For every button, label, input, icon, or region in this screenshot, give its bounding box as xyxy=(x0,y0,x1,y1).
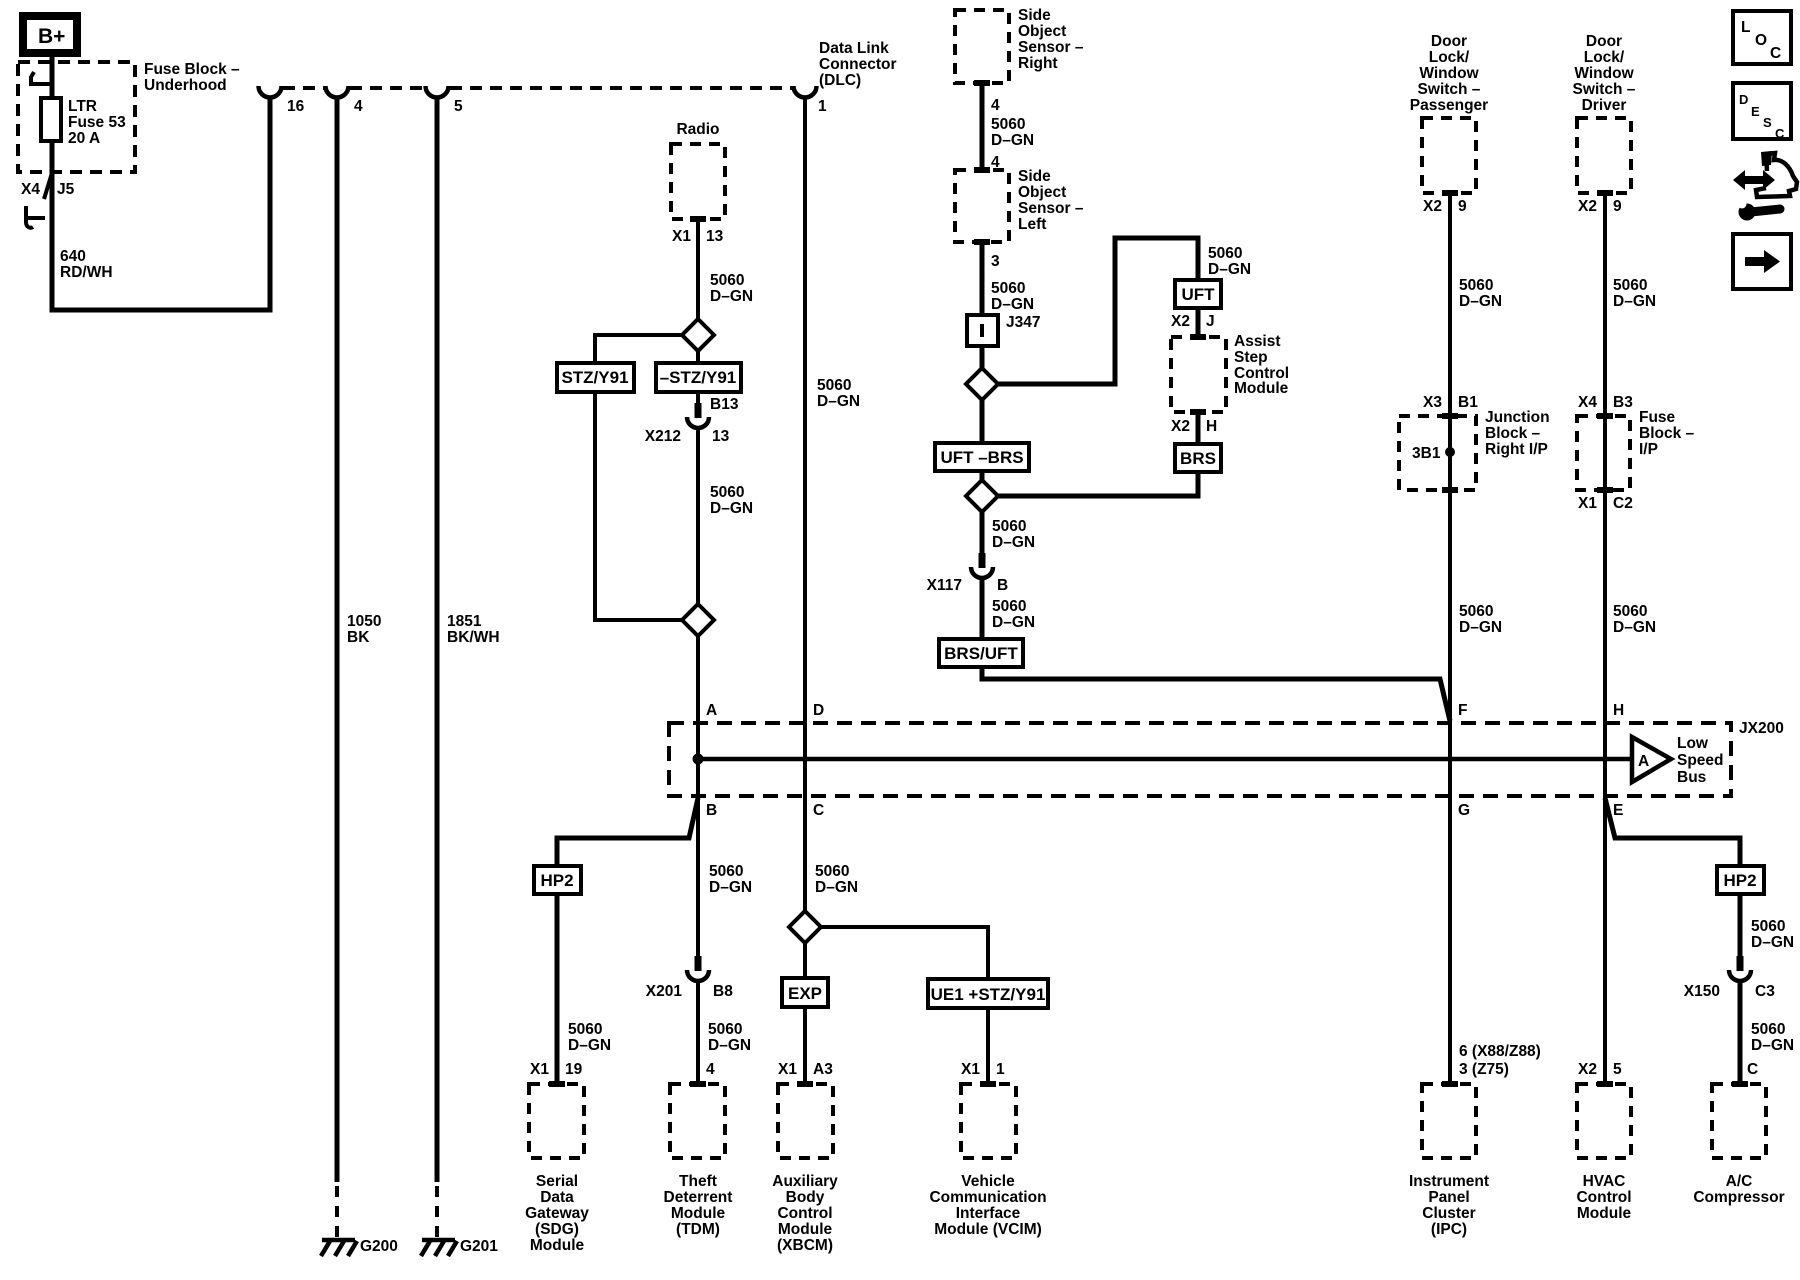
svg-text:Lock/: Lock/ xyxy=(1429,49,1470,66)
svg-text:Module: Module xyxy=(1577,1205,1632,1222)
svg-text:A: A xyxy=(706,702,717,719)
svg-text:Connector: Connector xyxy=(819,56,897,73)
svg-text:B+: B+ xyxy=(38,25,65,48)
svg-text:Panel: Panel xyxy=(1428,1189,1469,1206)
svg-text:D–GN: D–GN xyxy=(1459,619,1502,636)
svg-text:D–GN: D–GN xyxy=(991,132,1034,149)
svg-text:Auxiliary: Auxiliary xyxy=(772,1173,838,1190)
svg-text:Vehicle: Vehicle xyxy=(961,1173,1015,1190)
svg-text:Cluster: Cluster xyxy=(1422,1205,1475,1222)
svg-text:5060: 5060 xyxy=(815,863,849,880)
svg-text:X2: X2 xyxy=(1578,1061,1597,1078)
svg-text:D–GN: D–GN xyxy=(1613,293,1656,310)
svg-text:UFT –BRS: UFT –BRS xyxy=(940,448,1023,467)
svg-text:C: C xyxy=(1775,126,1785,141)
svg-text:Lock/: Lock/ xyxy=(1584,49,1625,66)
svg-text:5060: 5060 xyxy=(991,280,1025,297)
svg-text:640: 640 xyxy=(60,248,86,265)
svg-text:C2: C2 xyxy=(1613,495,1633,512)
svg-text:Object: Object xyxy=(1018,23,1066,40)
svg-text:D–GN: D–GN xyxy=(710,288,753,305)
svg-text:BK/WH: BK/WH xyxy=(447,629,500,646)
svg-text:Instrument: Instrument xyxy=(1409,1173,1489,1190)
svg-text:J5: J5 xyxy=(57,181,75,198)
svg-text:F: F xyxy=(1458,702,1467,719)
svg-text:D–GN: D–GN xyxy=(708,1037,751,1054)
svg-text:9: 9 xyxy=(1613,198,1622,215)
svg-text:B8: B8 xyxy=(713,983,733,1000)
svg-text:Door: Door xyxy=(1586,33,1622,50)
svg-text:Right: Right xyxy=(1018,55,1058,72)
svg-text:(XBCM): (XBCM) xyxy=(777,1237,833,1254)
svg-text:Door: Door xyxy=(1431,33,1467,50)
svg-text:C3: C3 xyxy=(1755,983,1775,1000)
svg-text:C: C xyxy=(813,802,824,819)
svg-text:Left: Left xyxy=(1018,216,1046,233)
svg-text:Fuse Block –: Fuse Block – xyxy=(144,61,240,78)
svg-text:4: 4 xyxy=(354,98,363,115)
svg-text:UFT: UFT xyxy=(1181,285,1215,304)
svg-text:X1: X1 xyxy=(1578,495,1597,512)
svg-text:Object: Object xyxy=(1018,184,1066,201)
svg-text:5060: 5060 xyxy=(1751,1021,1785,1038)
svg-text:Control: Control xyxy=(777,1205,832,1222)
svg-text:4: 4 xyxy=(706,1061,715,1078)
svg-text:D–GN: D–GN xyxy=(710,500,753,517)
svg-text:19: 19 xyxy=(565,1061,583,1078)
svg-text:13: 13 xyxy=(712,428,730,445)
svg-text:20 A: 20 A xyxy=(68,130,100,147)
svg-text:Step: Step xyxy=(1234,349,1268,366)
svg-text:5060: 5060 xyxy=(1459,277,1493,294)
svg-text:–STZ/Y91: –STZ/Y91 xyxy=(660,368,737,387)
svg-text:D–GN: D–GN xyxy=(1459,293,1502,310)
svg-text:BRS/UFT: BRS/UFT xyxy=(944,644,1018,663)
svg-text:5: 5 xyxy=(1613,1061,1622,1078)
svg-text:Deterrent: Deterrent xyxy=(664,1189,733,1206)
svg-text:Data Link: Data Link xyxy=(819,40,889,57)
svg-text:Communication: Communication xyxy=(929,1189,1046,1206)
svg-text:Right I/P: Right I/P xyxy=(1485,441,1548,458)
svg-text:Compressor: Compressor xyxy=(1693,1189,1784,1206)
svg-text:EXP: EXP xyxy=(788,984,822,1003)
svg-text:Low: Low xyxy=(1677,735,1709,752)
svg-text:B1: B1 xyxy=(1458,394,1478,411)
svg-text:5060: 5060 xyxy=(992,598,1026,615)
svg-text:D–GN: D–GN xyxy=(1208,261,1251,278)
svg-text:Sensor –: Sensor – xyxy=(1018,39,1084,56)
svg-text:X1: X1 xyxy=(778,1061,797,1078)
svg-text:1: 1 xyxy=(996,1061,1005,1078)
svg-text:X212: X212 xyxy=(645,428,681,445)
svg-text:Theft: Theft xyxy=(679,1173,717,1190)
svg-text:B: B xyxy=(706,802,717,819)
svg-text:Fuse 53: Fuse 53 xyxy=(68,114,126,131)
svg-text:5060: 5060 xyxy=(1613,603,1647,620)
svg-text:S: S xyxy=(1763,115,1772,130)
svg-text:4: 4 xyxy=(991,97,1000,114)
svg-text:C: C xyxy=(1747,1061,1758,1078)
svg-text:D–GN: D–GN xyxy=(991,296,1034,313)
svg-text:O: O xyxy=(1755,32,1767,49)
svg-text:X1: X1 xyxy=(530,1061,549,1078)
svg-text:Interface: Interface xyxy=(956,1205,1021,1222)
svg-text:LTR: LTR xyxy=(68,98,97,115)
svg-text:D–GN: D–GN xyxy=(1751,934,1794,951)
svg-text:X1: X1 xyxy=(961,1061,980,1078)
svg-text:B3: B3 xyxy=(1613,394,1633,411)
svg-text:5060: 5060 xyxy=(1208,245,1242,262)
svg-text:5060: 5060 xyxy=(1459,603,1493,620)
svg-text:X2: X2 xyxy=(1423,198,1442,215)
svg-text:Side: Side xyxy=(1018,168,1051,185)
svg-text:L: L xyxy=(1741,19,1750,36)
svg-text:J: J xyxy=(1206,313,1215,330)
svg-text:X2: X2 xyxy=(1171,313,1190,330)
svg-text:Block –: Block – xyxy=(1485,425,1541,442)
svg-text:D–GN: D–GN xyxy=(1751,1037,1794,1054)
svg-text:HP2: HP2 xyxy=(540,871,573,890)
svg-text:Speed: Speed xyxy=(1677,752,1724,769)
svg-text:3 (Z75): 3 (Z75) xyxy=(1459,1061,1509,1078)
svg-text:Window: Window xyxy=(1419,65,1479,82)
svg-text:9: 9 xyxy=(1458,198,1467,215)
svg-text:Fuse: Fuse xyxy=(1639,409,1676,426)
svg-text:D: D xyxy=(1739,92,1748,107)
svg-text:5060: 5060 xyxy=(817,377,851,394)
svg-text:1851: 1851 xyxy=(447,613,482,630)
svg-text:Serial: Serial xyxy=(536,1173,578,1190)
svg-text:B: B xyxy=(997,577,1008,594)
svg-text:5060: 5060 xyxy=(1751,918,1785,935)
svg-text:Data: Data xyxy=(540,1189,574,1206)
svg-text:13: 13 xyxy=(706,228,724,245)
svg-text:D–GN: D–GN xyxy=(817,393,860,410)
svg-text:BRS: BRS xyxy=(1180,449,1216,468)
svg-text:H: H xyxy=(1613,702,1624,719)
svg-text:3: 3 xyxy=(991,253,1000,270)
svg-text:HVAC: HVAC xyxy=(1583,1173,1626,1190)
svg-text:BK: BK xyxy=(347,629,370,646)
svg-text:Block –: Block – xyxy=(1639,425,1695,442)
svg-text:5060: 5060 xyxy=(991,116,1025,133)
svg-text:Passenger: Passenger xyxy=(1410,97,1488,114)
svg-text:X117: X117 xyxy=(927,577,962,594)
svg-text:D–GN: D–GN xyxy=(709,879,752,896)
svg-text:J347: J347 xyxy=(1006,314,1040,331)
svg-text:Gateway: Gateway xyxy=(525,1205,589,1222)
svg-text:X4: X4 xyxy=(21,181,40,198)
svg-text:16: 16 xyxy=(287,98,305,115)
svg-text:HP2: HP2 xyxy=(1723,871,1756,890)
svg-text:5060: 5060 xyxy=(1613,277,1647,294)
svg-text:5: 5 xyxy=(454,98,463,115)
svg-text:5060: 5060 xyxy=(568,1021,602,1038)
svg-text:UE1 +STZ/Y91: UE1 +STZ/Y91 xyxy=(931,985,1046,1004)
svg-text:Bus: Bus xyxy=(1677,769,1706,786)
svg-text:Body: Body xyxy=(786,1189,825,1206)
svg-text:(SDG): (SDG) xyxy=(535,1221,579,1238)
svg-text:G201: G201 xyxy=(460,1238,498,1255)
svg-text:5060: 5060 xyxy=(710,272,744,289)
svg-text:1: 1 xyxy=(818,98,827,115)
svg-text:C: C xyxy=(1770,45,1781,62)
svg-text:Module: Module xyxy=(1234,380,1289,397)
svg-text:Underhood: Underhood xyxy=(144,77,227,94)
svg-text:D: D xyxy=(813,702,824,719)
svg-text:Radio: Radio xyxy=(676,121,719,138)
svg-text:5060: 5060 xyxy=(710,484,744,501)
svg-text:1050: 1050 xyxy=(347,613,381,630)
svg-text:X201: X201 xyxy=(646,983,683,1000)
svg-text:STZ/Y91: STZ/Y91 xyxy=(561,368,628,387)
svg-text:Driver: Driver xyxy=(1582,97,1627,114)
svg-text:Switch –: Switch – xyxy=(1573,81,1636,98)
svg-text:JX200: JX200 xyxy=(1739,720,1784,737)
svg-text:A/C: A/C xyxy=(1726,1173,1753,1190)
svg-text:Module (VCIM): Module (VCIM) xyxy=(934,1221,1042,1238)
svg-text:Window: Window xyxy=(1574,65,1634,82)
svg-text:E: E xyxy=(1613,802,1623,819)
svg-text:(IPC): (IPC) xyxy=(1431,1221,1467,1238)
svg-text:Assist: Assist xyxy=(1234,333,1281,350)
svg-text:5060: 5060 xyxy=(992,518,1026,535)
svg-text:G: G xyxy=(1458,802,1470,819)
svg-text:X3: X3 xyxy=(1423,394,1442,411)
svg-text:4: 4 xyxy=(991,154,1000,171)
svg-text:Junction: Junction xyxy=(1485,409,1550,426)
svg-text:(DLC): (DLC) xyxy=(819,72,861,89)
svg-text:Side: Side xyxy=(1018,7,1051,24)
svg-text:D–GN: D–GN xyxy=(992,534,1035,551)
svg-text:G200: G200 xyxy=(360,1238,398,1255)
svg-text:5060: 5060 xyxy=(709,863,743,880)
svg-text:X150: X150 xyxy=(1684,983,1720,1000)
svg-text:E: E xyxy=(1751,104,1760,119)
svg-text:D–GN: D–GN xyxy=(992,614,1035,631)
svg-text:Module: Module xyxy=(671,1205,726,1222)
svg-text:Switch –: Switch – xyxy=(1418,81,1481,98)
svg-text:I/P: I/P xyxy=(1639,441,1658,458)
svg-text:D–GN: D–GN xyxy=(1613,619,1656,636)
svg-text:Module: Module xyxy=(530,1237,585,1254)
svg-text:Control: Control xyxy=(1576,1189,1631,1206)
svg-text:5060: 5060 xyxy=(708,1021,742,1038)
svg-text:X2: X2 xyxy=(1171,418,1190,435)
svg-text:6 (X88/Z88): 6 (X88/Z88) xyxy=(1459,1043,1541,1060)
svg-text:3B1: 3B1 xyxy=(1412,445,1441,462)
svg-text:H: H xyxy=(1206,418,1217,435)
svg-text:RD/WH: RD/WH xyxy=(60,264,113,281)
svg-text:X1: X1 xyxy=(672,228,691,245)
svg-text:X4: X4 xyxy=(1578,394,1597,411)
svg-text:A3: A3 xyxy=(813,1061,833,1078)
svg-text:X2: X2 xyxy=(1578,198,1597,215)
svg-text:D–GN: D–GN xyxy=(568,1037,611,1054)
svg-text:(TDM): (TDM) xyxy=(676,1221,720,1238)
svg-text:Module: Module xyxy=(778,1221,833,1238)
svg-text:B13: B13 xyxy=(710,396,739,413)
svg-text:Sensor –: Sensor – xyxy=(1018,200,1084,217)
svg-text:D–GN: D–GN xyxy=(815,879,858,896)
svg-text:A: A xyxy=(1638,753,1649,770)
